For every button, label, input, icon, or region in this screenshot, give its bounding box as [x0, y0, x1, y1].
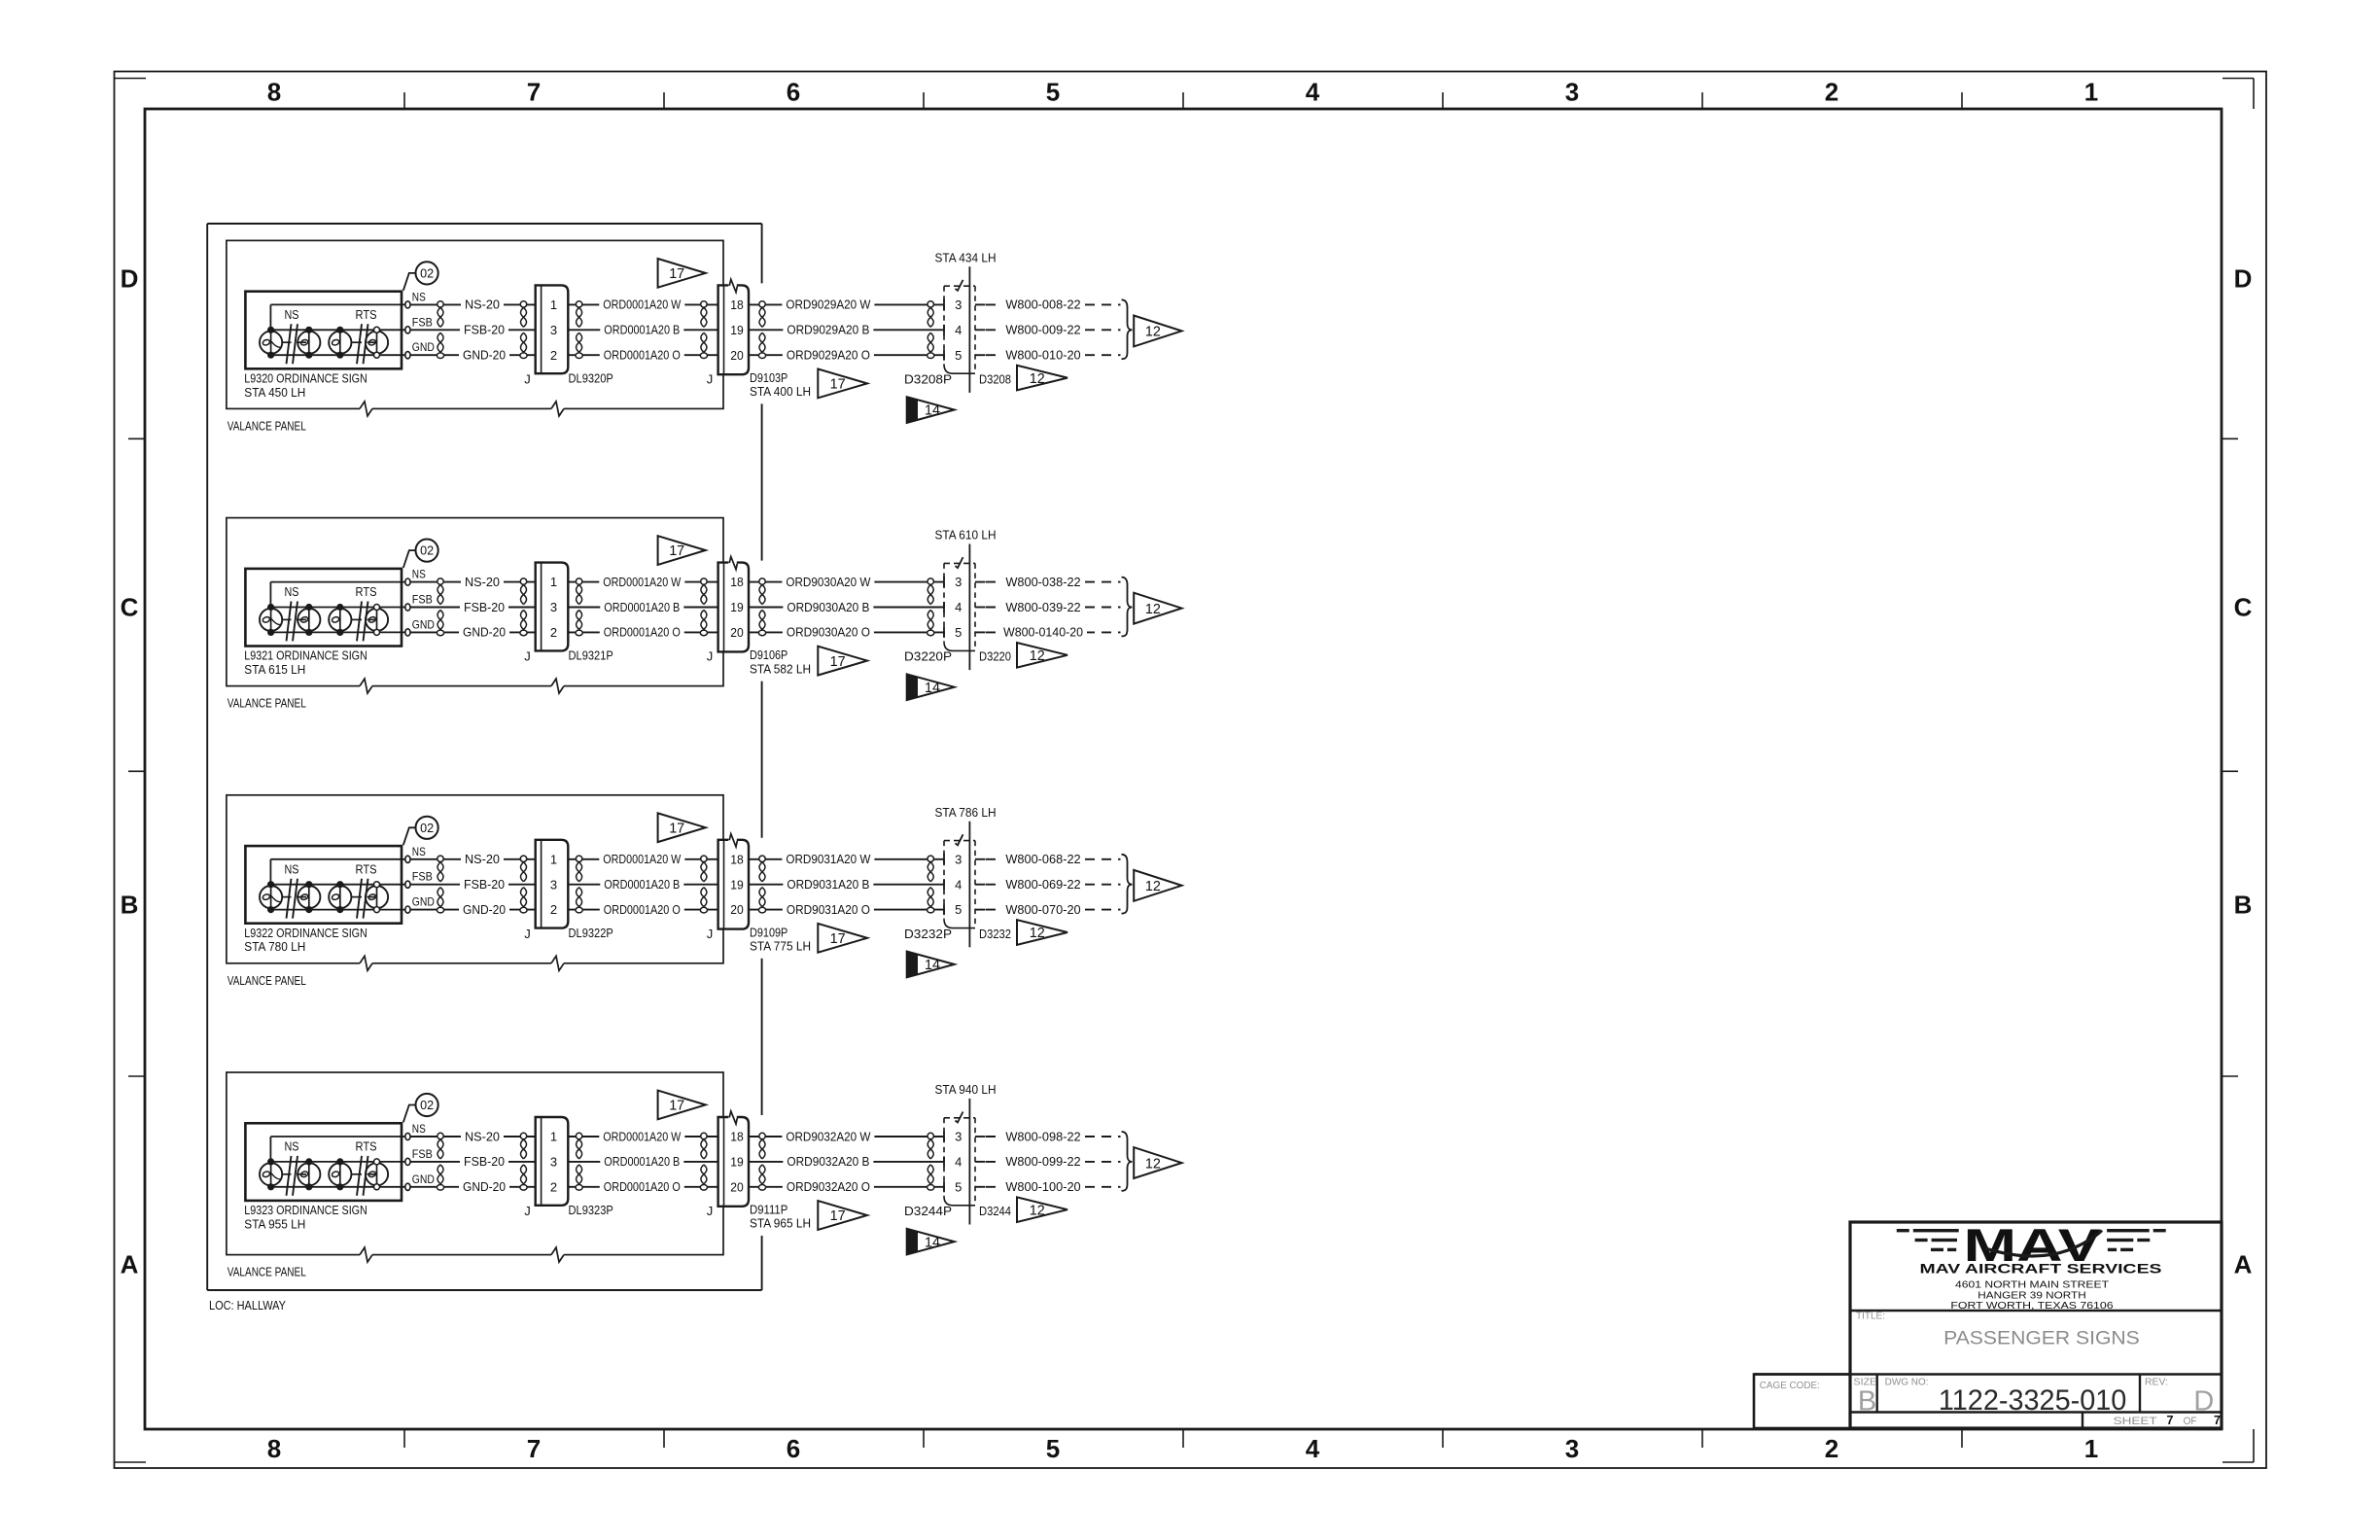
svg-text:W800-009-22: W800-009-22: [1005, 323, 1080, 337]
svg-text:7: 7: [527, 1434, 541, 1463]
svg-text:FSB-20: FSB-20: [464, 1154, 505, 1169]
svg-text:MAV AIRCRAFT SERVICES: MAV AIRCRAFT SERVICES: [1920, 1261, 2162, 1276]
svg-text:ORD9029A20 W: ORD9029A20 W: [786, 297, 871, 312]
svg-text:19: 19: [730, 1155, 744, 1170]
svg-text:17: 17: [669, 822, 684, 837]
svg-text:4: 4: [955, 323, 962, 337]
svg-text:D: D: [2234, 263, 2253, 293]
svg-text:FSB: FSB: [412, 870, 433, 884]
svg-text:A: A: [121, 1249, 139, 1278]
svg-text:NS: NS: [285, 307, 299, 322]
svg-text:W800-068-22: W800-068-22: [1005, 852, 1080, 866]
svg-text:3: 3: [550, 1155, 557, 1170]
svg-text:W800-010-20: W800-010-20: [1005, 348, 1080, 363]
svg-text:D3208: D3208: [979, 371, 1011, 386]
svg-text:ORD0001A20 O: ORD0001A20 O: [604, 902, 681, 917]
svg-text:ORD0001A20 W: ORD0001A20 W: [603, 297, 682, 312]
svg-text:FSB-20: FSB-20: [464, 323, 505, 337]
svg-text:RTS: RTS: [356, 861, 377, 876]
svg-text:STA 955 LH: STA 955 LH: [244, 1216, 305, 1231]
svg-text:STA 582 LH: STA 582 LH: [750, 661, 811, 676]
svg-text:GND: GND: [412, 617, 435, 631]
svg-text:4: 4: [955, 1155, 962, 1170]
svg-text:GND: GND: [412, 895, 435, 909]
svg-text:NS: NS: [412, 290, 426, 303]
svg-text:B: B: [1858, 1386, 1876, 1417]
svg-text:4: 4: [955, 600, 962, 614]
svg-text:12: 12: [1145, 325, 1161, 340]
svg-text:7: 7: [527, 78, 541, 107]
svg-text:NS: NS: [412, 1122, 426, 1136]
svg-text:DL9321P: DL9321P: [569, 648, 613, 663]
svg-text:FSB: FSB: [412, 1147, 433, 1161]
svg-text:J: J: [707, 371, 714, 386]
svg-text:2: 2: [1825, 78, 1838, 107]
svg-text:20: 20: [730, 1179, 744, 1194]
svg-text:02: 02: [420, 543, 434, 558]
svg-text:ORD9032A20 B: ORD9032A20 B: [787, 1154, 869, 1169]
svg-text:J: J: [707, 649, 714, 664]
svg-text:RTS: RTS: [356, 584, 377, 599]
svg-text:3: 3: [1565, 78, 1579, 107]
svg-text:1: 1: [2084, 78, 2098, 107]
svg-text:5: 5: [955, 1179, 962, 1194]
svg-text:ORD0001A20 O: ORD0001A20 O: [604, 1179, 681, 1194]
svg-text:ORD9029A20 B: ORD9029A20 B: [787, 323, 869, 337]
svg-text:NS: NS: [285, 1139, 299, 1154]
svg-text:4: 4: [1306, 78, 1320, 107]
svg-text:ORD9029A20 O: ORD9029A20 O: [787, 348, 870, 363]
svg-text:RTS: RTS: [356, 307, 377, 322]
svg-text:D3232: D3232: [979, 927, 1011, 941]
svg-text:20: 20: [730, 902, 744, 917]
svg-text:ORD9031A20 W: ORD9031A20 W: [786, 852, 871, 866]
svg-text:D: D: [121, 263, 139, 293]
svg-text:GND: GND: [412, 1172, 435, 1186]
svg-text:FSB-20: FSB-20: [464, 877, 505, 892]
svg-text:ORD9030A20 W: ORD9030A20 W: [786, 575, 871, 589]
svg-text:W800-0140-20: W800-0140-20: [1003, 625, 1083, 640]
svg-text:7: 7: [2167, 1414, 2174, 1427]
svg-text:D9103P: D9103P: [750, 370, 787, 385]
svg-text:ORD9031A20 O: ORD9031A20 O: [787, 902, 870, 917]
svg-text:VALANCE PANEL: VALANCE PANEL: [227, 696, 306, 711]
svg-text:HANGER 39 NORTH: HANGER 39 NORTH: [1977, 1290, 2085, 1301]
svg-text:2: 2: [550, 348, 557, 363]
svg-text:18: 18: [730, 852, 744, 866]
svg-text:L9322 ORDINANCE SIGN: L9322 ORDINANCE SIGN: [244, 926, 367, 940]
svg-text:FSB: FSB: [412, 593, 433, 607]
svg-text:1: 1: [550, 297, 557, 312]
svg-text:FSB-20: FSB-20: [464, 600, 505, 614]
svg-text:17: 17: [830, 931, 846, 947]
svg-text:2: 2: [1825, 1434, 1838, 1463]
svg-text:ORD9030A20 B: ORD9030A20 B: [787, 600, 869, 614]
svg-text:CAGE CODE:: CAGE CODE:: [1760, 1380, 1820, 1391]
svg-text:B: B: [121, 890, 139, 919]
svg-text:3: 3: [955, 1130, 962, 1144]
svg-text:J: J: [707, 927, 714, 941]
svg-text:RTS: RTS: [356, 1139, 377, 1154]
svg-text:TITLE:: TITLE:: [1856, 1312, 1885, 1322]
svg-text:ORD0001A20 W: ORD0001A20 W: [603, 575, 682, 589]
svg-text:VALANCE PANEL: VALANCE PANEL: [227, 418, 306, 433]
svg-text:2: 2: [550, 902, 557, 917]
svg-text:DL9322P: DL9322P: [569, 926, 613, 940]
svg-text:1: 1: [550, 852, 557, 866]
svg-text:19: 19: [730, 323, 744, 337]
svg-text:NS-20: NS-20: [465, 575, 500, 589]
svg-text:W800-038-22: W800-038-22: [1005, 575, 1080, 589]
svg-text:12: 12: [1145, 1156, 1161, 1172]
svg-text:D3244P: D3244P: [904, 1204, 952, 1218]
svg-text:VALANCE PANEL: VALANCE PANEL: [227, 1265, 306, 1279]
svg-text:W800-099-22: W800-099-22: [1005, 1154, 1080, 1169]
svg-text:12: 12: [1145, 602, 1161, 617]
svg-text:6: 6: [787, 1434, 800, 1463]
svg-text:ORD0001A20 O: ORD0001A20 O: [604, 348, 681, 363]
svg-text:ORD0001A20 W: ORD0001A20 W: [603, 1129, 682, 1143]
svg-text:REV:: REV:: [2145, 1376, 2168, 1387]
svg-text:14: 14: [925, 1235, 940, 1250]
svg-text:FSB: FSB: [412, 315, 433, 329]
svg-text:3: 3: [955, 297, 962, 312]
svg-text:ORD0001A20 B: ORD0001A20 B: [604, 1154, 680, 1169]
svg-text:GND-20: GND-20: [463, 348, 506, 363]
svg-text:4601 NORTH MAIN STREET: 4601 NORTH MAIN STREET: [1955, 1280, 2110, 1291]
svg-text:W800-008-22: W800-008-22: [1005, 297, 1080, 312]
svg-text:12: 12: [1030, 926, 1045, 941]
svg-text:D: D: [2193, 1386, 2214, 1417]
svg-text:J: J: [524, 371, 531, 386]
svg-text:3: 3: [955, 852, 962, 866]
svg-text:2: 2: [550, 1179, 557, 1194]
svg-text:C: C: [121, 592, 139, 621]
svg-text:ORD9030A20 O: ORD9030A20 O: [787, 625, 870, 640]
svg-text:ORD0001A20 B: ORD0001A20 B: [604, 323, 680, 337]
svg-text:L9320 ORDINANCE SIGN: L9320 ORDINANCE SIGN: [244, 371, 367, 386]
svg-text:17: 17: [830, 1208, 846, 1224]
svg-text:W800-069-22: W800-069-22: [1005, 877, 1080, 892]
svg-text:ORD9032A20 O: ORD9032A20 O: [787, 1179, 870, 1194]
svg-text:SHEET: SHEET: [2114, 1416, 2157, 1427]
svg-text:DWG NO:: DWG NO:: [1885, 1377, 1929, 1388]
svg-text:12: 12: [1030, 1203, 1045, 1218]
svg-text:ORD0001A20 B: ORD0001A20 B: [604, 600, 680, 614]
svg-text:GND-20: GND-20: [463, 625, 506, 640]
svg-text:OF: OF: [2184, 1416, 2197, 1427]
svg-text:3: 3: [550, 323, 557, 337]
svg-text:8: 8: [267, 78, 281, 107]
svg-text:STA 940 LH: STA 940 LH: [935, 1082, 997, 1097]
svg-text:D9106P: D9106P: [750, 647, 787, 662]
svg-text:STA 610 LH: STA 610 LH: [935, 528, 997, 542]
svg-text:1: 1: [2084, 1434, 2098, 1463]
svg-text:NS: NS: [285, 861, 299, 876]
svg-text:4: 4: [1306, 1434, 1320, 1463]
svg-text:17: 17: [669, 543, 684, 559]
svg-text:5: 5: [955, 625, 962, 640]
svg-text:5: 5: [1046, 78, 1060, 107]
svg-text:3: 3: [550, 877, 557, 892]
svg-text:NS-20: NS-20: [465, 852, 500, 866]
svg-text:18: 18: [730, 575, 744, 589]
svg-text:PASSENGER SIGNS: PASSENGER SIGNS: [1943, 1327, 2140, 1348]
svg-text:NS: NS: [412, 568, 426, 581]
svg-text:GND-20: GND-20: [463, 902, 506, 917]
svg-text:FORT WORTH, TEXAS 76106: FORT WORTH, TEXAS 76106: [1950, 1301, 2113, 1312]
svg-text:2: 2: [550, 625, 557, 640]
svg-text:W800-100-20: W800-100-20: [1005, 1179, 1080, 1194]
svg-text:19: 19: [730, 877, 744, 892]
svg-text:14: 14: [925, 958, 940, 973]
svg-text:ORD0001A20 B: ORD0001A20 B: [604, 877, 680, 892]
svg-text:5: 5: [1046, 1434, 1060, 1463]
svg-text:NS: NS: [285, 584, 299, 599]
svg-text:1122-3325-010: 1122-3325-010: [1939, 1384, 2127, 1417]
svg-text:5: 5: [955, 902, 962, 917]
svg-text:DL9323P: DL9323P: [569, 1203, 613, 1217]
svg-text:7: 7: [2214, 1414, 2221, 1427]
svg-text:1: 1: [550, 1130, 557, 1144]
svg-text:STA 615 LH: STA 615 LH: [244, 662, 305, 677]
svg-text:C: C: [2234, 592, 2253, 621]
svg-text:STA 786 LH: STA 786 LH: [935, 805, 997, 820]
svg-text:GND: GND: [412, 340, 435, 354]
svg-text:ORD0001A20 W: ORD0001A20 W: [603, 852, 682, 866]
svg-text:W800-070-20: W800-070-20: [1005, 902, 1080, 917]
svg-text:D3220P: D3220P: [904, 649, 952, 664]
svg-text:J: J: [524, 1204, 531, 1218]
svg-text:5: 5: [955, 348, 962, 363]
svg-text:NS: NS: [412, 845, 426, 858]
svg-text:STA 780 LH: STA 780 LH: [244, 939, 305, 954]
svg-text:17: 17: [830, 377, 846, 393]
svg-text:J: J: [707, 1204, 714, 1218]
svg-text:02: 02: [420, 266, 434, 281]
svg-text:D9111P: D9111P: [750, 1203, 787, 1217]
svg-text:J: J: [524, 649, 531, 664]
svg-text:ORD9032A20 W: ORD9032A20 W: [786, 1129, 871, 1143]
svg-text:B: B: [2234, 890, 2253, 919]
svg-text:STA 434 LH: STA 434 LH: [935, 251, 997, 265]
svg-text:STA 400 LH: STA 400 LH: [750, 384, 811, 399]
svg-text:ORD9031A20 B: ORD9031A20 B: [787, 877, 869, 892]
svg-text:GND-20: GND-20: [463, 1179, 506, 1194]
svg-text:3: 3: [955, 575, 962, 589]
svg-text:D3220: D3220: [979, 649, 1011, 664]
svg-text:18: 18: [730, 297, 744, 312]
svg-text:STA 450 LH: STA 450 LH: [244, 385, 305, 400]
svg-text:D3232P: D3232P: [904, 927, 952, 941]
svg-text:DL9320P: DL9320P: [569, 371, 613, 386]
svg-text:D9109P: D9109P: [750, 925, 787, 939]
svg-text:14: 14: [925, 403, 940, 419]
svg-text:W800-039-22: W800-039-22: [1005, 600, 1080, 614]
svg-text:L9321 ORDINANCE SIGN: L9321 ORDINANCE SIGN: [244, 648, 367, 663]
svg-text:12: 12: [1030, 371, 1045, 387]
svg-text:8: 8: [267, 1434, 281, 1463]
svg-text:20: 20: [730, 348, 744, 363]
svg-text:D3244: D3244: [979, 1204, 1011, 1218]
svg-text:02: 02: [420, 1098, 434, 1112]
svg-text:NS-20: NS-20: [465, 1129, 500, 1143]
svg-text:18: 18: [730, 1130, 744, 1144]
svg-text:D3208P: D3208P: [904, 371, 952, 386]
svg-text:STA 965 LH: STA 965 LH: [750, 1216, 811, 1231]
svg-text:LOC: HALLWAY: LOC: HALLWAY: [209, 1298, 286, 1312]
svg-text:L9323 ORDINANCE SIGN: L9323 ORDINANCE SIGN: [244, 1203, 367, 1217]
svg-text:12: 12: [1145, 879, 1161, 894]
svg-text:17: 17: [669, 1099, 684, 1114]
svg-text:W800-098-22: W800-098-22: [1005, 1129, 1080, 1143]
svg-text:NS-20: NS-20: [465, 297, 500, 312]
svg-text:20: 20: [730, 625, 744, 640]
svg-text:6: 6: [787, 78, 800, 107]
svg-text:VALANCE PANEL: VALANCE PANEL: [227, 973, 306, 988]
svg-text:J: J: [524, 927, 531, 941]
svg-text:12: 12: [1030, 648, 1045, 664]
svg-text:A: A: [2234, 1249, 2253, 1278]
svg-text:4: 4: [955, 877, 962, 892]
svg-text:3: 3: [1565, 1434, 1579, 1463]
svg-text:ORD0001A20 O: ORD0001A20 O: [604, 625, 681, 640]
svg-text:19: 19: [730, 600, 744, 614]
svg-text:STA 775 LH: STA 775 LH: [750, 939, 811, 954]
svg-text:3: 3: [550, 600, 557, 614]
svg-text:14: 14: [925, 681, 940, 696]
svg-text:02: 02: [420, 821, 434, 835]
svg-text:17: 17: [830, 654, 846, 670]
svg-text:1: 1: [550, 575, 557, 589]
svg-text:17: 17: [669, 266, 684, 282]
